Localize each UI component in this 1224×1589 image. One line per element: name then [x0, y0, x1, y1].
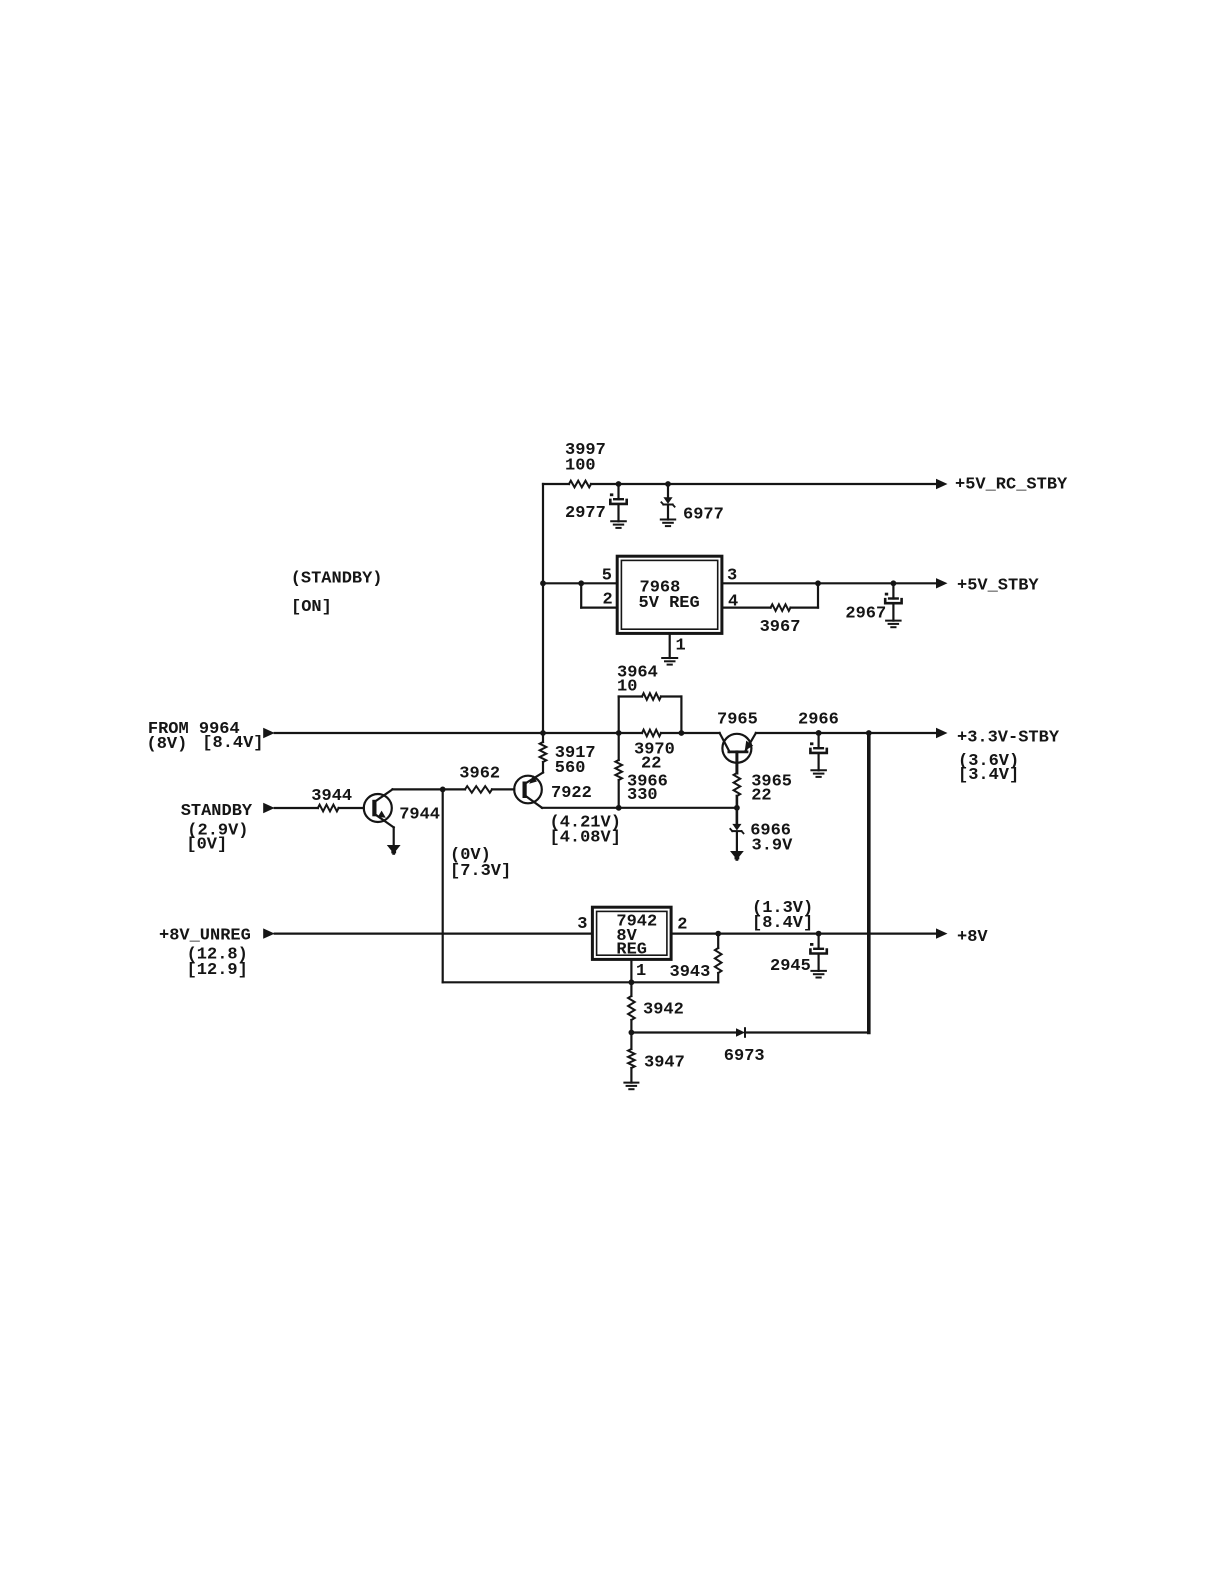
svg-text:6973: 6973 — [724, 1047, 765, 1066]
svg-text:100: 100 — [565, 457, 596, 476]
svg-text:REG: REG — [616, 941, 647, 960]
svg-text:[3.4V]: [3.4V] — [958, 766, 1019, 785]
svg-text:4: 4 — [728, 592, 738, 611]
svg-text:2966: 2966 — [798, 710, 839, 729]
svg-text:2945: 2945 — [770, 957, 811, 976]
svg-text:3943: 3943 — [670, 963, 711, 982]
svg-text:5V REG: 5V REG — [639, 594, 700, 613]
svg-text:+5V_STBY: +5V_STBY — [957, 576, 1039, 595]
svg-text:3944: 3944 — [311, 787, 352, 806]
svg-text:3947: 3947 — [644, 1054, 685, 1073]
svg-text:1: 1 — [636, 962, 646, 981]
svg-text:3: 3 — [577, 915, 587, 934]
svg-text:[8.4V]: [8.4V] — [202, 734, 263, 753]
svg-text:+5V_RC_STBY: +5V_RC_STBY — [955, 476, 1068, 495]
svg-text:1: 1 — [676, 637, 686, 656]
svg-text:+8V_UNREG: +8V_UNREG — [159, 926, 251, 945]
svg-text:3962: 3962 — [459, 764, 500, 783]
svg-text:(STANDBY): (STANDBY) — [291, 570, 383, 589]
svg-text:22: 22 — [641, 754, 661, 773]
svg-text:7944: 7944 — [399, 805, 440, 824]
svg-text:7965: 7965 — [717, 710, 758, 729]
svg-text:3942: 3942 — [643, 1000, 684, 1019]
svg-text:5: 5 — [602, 567, 612, 586]
svg-text:330: 330 — [627, 786, 658, 805]
svg-text:[4.08V]: [4.08V] — [550, 829, 621, 848]
svg-text:[0V]: [0V] — [186, 836, 227, 855]
svg-text:7922: 7922 — [551, 784, 592, 803]
svg-text:2: 2 — [677, 915, 687, 934]
svg-text:2: 2 — [603, 591, 613, 610]
svg-text:STANDBY: STANDBY — [181, 802, 253, 821]
svg-text:[8.4V]: [8.4V] — [752, 914, 813, 933]
svg-text:560: 560 — [555, 759, 586, 778]
svg-text:+8V: +8V — [957, 928, 988, 947]
svg-text:[ON]: [ON] — [291, 598, 332, 617]
svg-text:2977: 2977 — [565, 504, 606, 523]
svg-text:3.9V: 3.9V — [752, 836, 794, 855]
svg-text:+3.3V-STBY: +3.3V-STBY — [957, 728, 1060, 747]
svg-text:[7.3V]: [7.3V] — [450, 862, 511, 881]
svg-text:6977: 6977 — [683, 506, 724, 525]
svg-text:2967: 2967 — [845, 604, 886, 623]
svg-text:22: 22 — [751, 787, 771, 806]
svg-text:(8V): (8V) — [147, 735, 188, 754]
svg-text:3967: 3967 — [760, 618, 801, 637]
svg-text:[12.9]: [12.9] — [187, 961, 248, 980]
svg-text:10: 10 — [617, 677, 637, 696]
svg-text:3: 3 — [727, 566, 737, 585]
